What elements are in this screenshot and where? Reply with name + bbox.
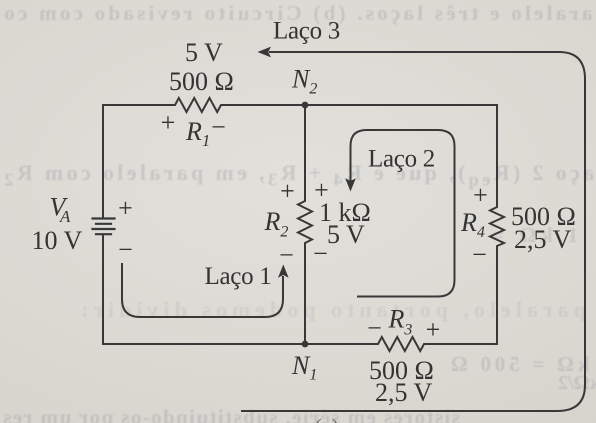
svg-text:N2: N2 — [291, 65, 317, 98]
svg-text:Laço 1: Laço 1 — [205, 263, 272, 290]
svg-text:−: − — [118, 235, 133, 264]
svg-text:Laço 2: Laço 2 — [368, 146, 435, 173]
svg-text:+: + — [161, 108, 176, 137]
svg-text:A: A — [59, 207, 71, 226]
svg-text:2,5 V: 2,5 V — [375, 378, 433, 407]
svg-text:N1: N1 — [291, 351, 317, 384]
svg-text:(a): (a) — [315, 414, 339, 423]
svg-text:+: + — [473, 181, 488, 210]
svg-text:10 V: 10 V — [32, 226, 83, 255]
svg-text:R1: R1 — [185, 117, 210, 150]
svg-text:Laço 3: Laço 3 — [273, 18, 340, 45]
svg-text:5 V: 5 V — [327, 220, 365, 249]
svg-text:5 V: 5 V — [185, 38, 223, 67]
svg-text:R2: R2 — [264, 207, 289, 241]
svg-text:+: + — [426, 315, 441, 344]
svg-text:−: − — [313, 239, 328, 268]
svg-text:R4: R4 — [460, 208, 485, 241]
svg-text:2,5 V: 2,5 V — [514, 225, 572, 254]
svg-text:500 Ω: 500 Ω — [169, 67, 234, 96]
svg-text:−: − — [472, 240, 487, 269]
svg-text:+: + — [118, 194, 133, 223]
svg-text:−: − — [367, 314, 382, 343]
svg-text:+: + — [280, 177, 295, 206]
svg-text:−: − — [279, 241, 294, 270]
svg-text:−: − — [211, 113, 226, 142]
svg-text:R3: R3 — [388, 305, 413, 339]
